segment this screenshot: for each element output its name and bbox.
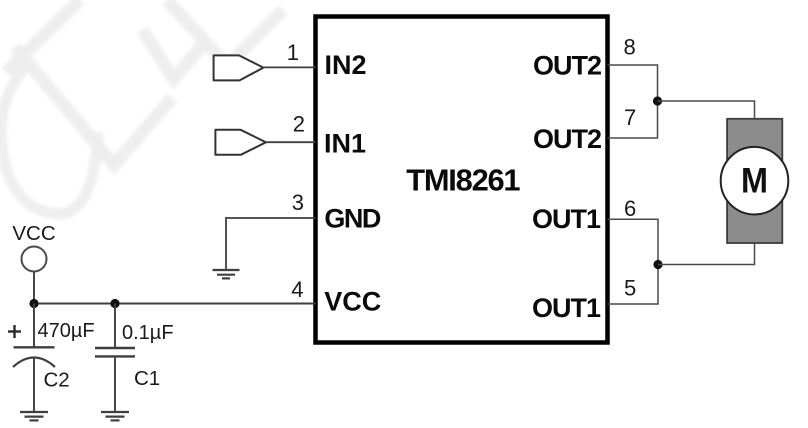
- input tag pin 1: [214, 55, 264, 80]
- svg-text:2: 2: [293, 112, 305, 137]
- svg-text:IN1: IN1: [324, 129, 366, 159]
- motor M body rectangle: [727, 119, 782, 243]
- svg-text:OUT2: OUT2: [533, 51, 601, 81]
- svg-text:1: 1: [287, 40, 299, 65]
- svg-text:3: 3: [292, 190, 304, 215]
- capacitor C1 bottom plate: [95, 355, 135, 357]
- capacitor C1 top plate: [95, 347, 135, 349]
- svg-text:M: M: [741, 161, 768, 201]
- svg-text:5: 5: [624, 276, 636, 301]
- wire VCC circle to rail: [33, 272, 35, 304]
- svg-text:GND: GND: [324, 204, 381, 234]
- wire VCC rail to pin 4: [34, 303, 316, 305]
- wire pin6 stub: [608, 219, 659, 304]
- wire junction to motor bottom: [658, 242, 755, 265]
- svg-text:VCC: VCC: [12, 222, 55, 245]
- svg-text:8: 8: [624, 35, 636, 60]
- input tag pin 2: [215, 130, 266, 155]
- wire rail to C2 top plate: [33, 304, 35, 348]
- svg-text:C2: C2: [44, 369, 70, 392]
- motor M circle: [721, 147, 789, 215]
- junction node pins 7-8: [653, 96, 662, 105]
- VCC supply circle: [22, 247, 47, 272]
- wire C1 to ground: [114, 356, 116, 412]
- wire junction to motor top: [658, 101, 755, 119]
- junction node at VCC/C2: [29, 299, 38, 308]
- svg-text:C1: C1: [134, 367, 160, 390]
- wire pin3 GND: [226, 218, 316, 270]
- capacitor C2 top plate: [14, 346, 55, 348]
- svg-text:4: 4: [291, 277, 303, 302]
- watermark: [1, 0, 283, 214]
- IC U1 motor driver TMI8261 body: [316, 17, 608, 343]
- svg-text:VCC: VCC: [324, 287, 381, 317]
- capacitor C2 plus sign: [8, 325, 21, 338]
- svg-text:470µF: 470µF: [38, 320, 95, 342]
- wire C2 to ground: [33, 358, 35, 413]
- wire pin2 tag to chip: [266, 141, 316, 143]
- svg-text:IN2: IN2: [325, 50, 367, 80]
- svg-text:TMI8261: TMI8261: [406, 163, 520, 198]
- ground (pin 3): [213, 270, 240, 278]
- ground (under C2): [20, 412, 48, 420]
- wire pin8 stub: [608, 65, 658, 138]
- wire pin1 tag to chip: [263, 66, 315, 68]
- capacitor C2 curved bottom plate: [13, 358, 55, 368]
- wire rail to C1 top plate: [114, 304, 116, 349]
- junction node pins 5-6: [653, 260, 662, 269]
- junction node at C1: [110, 299, 119, 308]
- svg-text:OUT2: OUT2: [533, 124, 601, 154]
- svg-text:OUT1: OUT1: [532, 293, 601, 323]
- svg-text:6: 6: [624, 196, 636, 221]
- svg-text:OUT1: OUT1: [532, 204, 601, 234]
- svg-text:0.1µF: 0.1µF: [122, 322, 174, 344]
- svg-text:7: 7: [624, 105, 636, 130]
- ground (under C1): [101, 412, 129, 420]
